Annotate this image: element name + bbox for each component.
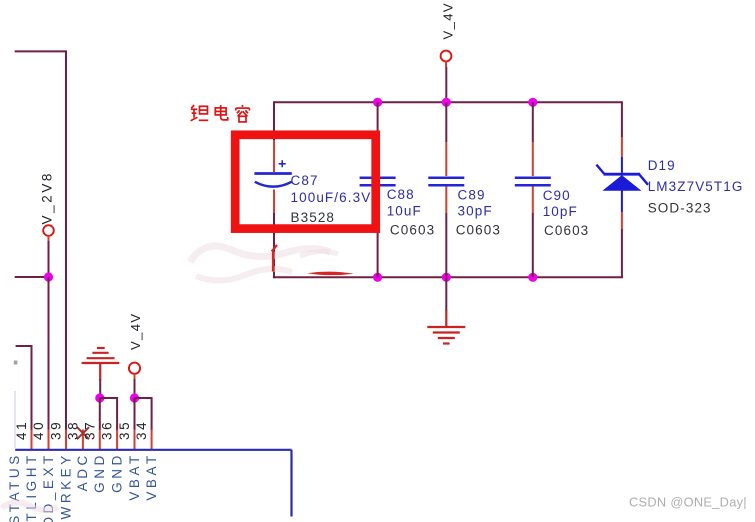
pin stub below V_4V top circle [445,61,447,67]
power port V_4V circle left [129,363,140,374]
wire junction jog to pin 36 [100,398,117,430]
wire junction to pin 35 [134,398,136,430]
junction top bus C88 [373,98,382,107]
svg-text:100uF/6.3V: 100uF/6.3V [291,190,372,205]
svg-text:V_2V8: V_2V8 [39,171,54,225]
容 [236,105,250,122]
pin 34 [151,430,153,450]
svg-text:CSDN @ONE_Day|: CSDN @ONE_Day| [629,495,747,510]
svg-text:C87: C87 [291,173,319,188]
svg-text:10uF: 10uF [387,203,422,218]
capacitor C88 plate 1 [360,176,396,179]
pin 35 [134,430,136,450]
wire junction jog to pin 34 [135,398,152,430]
junction top bus C90 [528,98,537,107]
pin stub below V_2V8 circle [48,236,50,242]
diode D19 branch wire top [621,101,623,137]
svg-text:V_4V: V_4V [128,313,143,350]
svg-text:GND: GND [109,452,124,493]
svg-text:C0603: C0603 [544,223,589,238]
svg-text:37: 37 [82,420,97,440]
svg-text:B3528: B3528 [291,210,336,225]
diode D19 zener bar [604,173,641,176]
diode D19 zener right tail [640,175,648,185]
junction bottom bus C88 [373,273,382,282]
钽 [191,105,209,121]
capacitor C90 branch wire top [532,102,534,142]
red annotation rectangle around C87 [235,135,376,229]
svg-text:41: 41 [14,420,29,440]
wire junction to pin 37 [99,398,101,430]
diode D19 cathode lead [621,157,623,173]
svg-text:40: 40 [31,420,46,440]
svg-text:C89: C89 [458,187,486,202]
capacitor C89 plate 1 [428,176,464,179]
capacitor C90 pin 1 [532,142,534,176]
diode D19 branch wire bottom [621,229,623,278]
IC U? body edge top [15,449,291,451]
wire top-left horizontal to VDD_EXT net [15,50,66,52]
diode D19 anode triangle [604,176,640,191]
capacitor C90 branch wire bottom [532,213,534,277]
capacitor C87 plus sign [279,160,286,167]
red marker tick near C87 wire [272,245,277,272]
ground symbol left (rotated) [82,348,120,380]
wire V_4V circle to junction [134,379,136,398]
svg-text:LM3Z7V5T1G: LM3Z7V5T1G [648,179,744,194]
power port V_2V8 circle [43,225,54,236]
junction V_2V8 node [44,272,53,281]
svg-text:34: 34 [134,420,149,440]
pin 40 [48,430,50,450]
电 [215,105,227,120]
svg-text:D19: D19 [648,158,676,173]
wire junction down to pin 40 [48,277,50,430]
capacitor C90 plate 2 [515,184,551,187]
capacitor C87 pin 1 [273,140,275,172]
svg-text:38: 38 [65,420,80,440]
capacitor C88 branch wire bottom [377,213,379,277]
capacitor C88 pin 1 [377,142,379,176]
svg-text:10pF: 10pF [543,204,578,219]
diode D19 anode lead [621,190,623,212]
faint watermark wisp bottom-left [2,502,58,509]
capacitor C87 curved plate [255,182,292,187]
pin 39 [65,430,67,450]
junction bottom bus ground [442,273,451,282]
pin stub below V_4V circle left [134,373,136,379]
wire top bus [274,101,622,103]
wire pin 41 vertical [31,345,33,430]
svg-text:V_4V: V_4V [440,2,455,39]
stray mark left end [14,361,18,365]
svg-text:STATUS: STATUS [7,452,22,522]
pin 36 [116,430,118,450]
junction bottom bus C90 [528,273,537,282]
pin 41 [31,430,33,450]
capacitor C87 branch wire top [273,101,275,140]
pin 38 [82,430,84,450]
wire bottom bus [274,276,622,278]
ground symbol bottom (red) [427,310,465,344]
faint watermark wisp middle [190,246,338,281]
wire pin 41 horizontal stub [16,345,32,347]
faint IC left edge hint [14,391,16,448]
diode D19 zener left tail [596,165,604,174]
svg-text:C90: C90 [543,188,571,203]
power port V_4V circle top [441,51,452,62]
svg-text:SOD-323: SOD-323 [648,201,712,216]
capacitor C87 branch wire bottom [273,213,275,278]
capacitor C89 pin 2 [445,187,447,214]
junction GND pins [95,393,104,402]
svg-text:39: 39 [49,420,64,440]
capacitor C89 pin 1 [445,142,447,176]
capacitor C90 plate 1 [515,176,551,179]
junction top bus C89 [442,98,451,107]
svg-text:30pF: 30pF [458,203,493,218]
capacitor C89 branch wire top [445,102,447,142]
svg-text:C0603: C0603 [456,222,501,237]
wire V_2V8 horizontal stub left [15,276,49,278]
svg-text:PWRKEY: PWRKEY [58,452,73,522]
junction VBAT pins [130,393,139,402]
svg-text:ADC: ADC [75,452,90,491]
no-connect X on pin 38 (ADC) [77,427,89,439]
capacitor C87 pin 2 [273,190,275,214]
diode D19 pin 1 (cathode) [621,137,623,157]
capacitor C88 pin 2 [377,187,379,214]
capacitor C87 flat plate [254,172,291,175]
wire V_2V8 circle down to junction [48,241,50,277]
svg-text:VBAT: VBAT [144,452,159,500]
svg-text:36: 36 [100,420,115,440]
capacitor C88 branch wire top [377,102,379,142]
IC body edge right [290,450,292,517]
svg-text:35: 35 [117,420,132,440]
capacitor C90 pin 2 [532,187,534,214]
capacitor C89 branch wire bottom [445,213,447,277]
wire V_4V down to top bus [445,67,447,102]
svg-text:C88: C88 [387,187,415,202]
wire ground stem from bottom bus [445,277,447,311]
svg-text:C0603: C0603 [390,222,435,237]
pin 37 [99,430,101,450]
svg-text:VBAT: VBAT [127,452,142,500]
svg-text:GND: GND [92,452,107,493]
capacitor C88 plate 2 [360,184,396,187]
red marker streak on bottom bus [307,272,354,276]
capacitor C89 plate 2 [428,184,464,187]
wire ground stem to junction [99,379,101,398]
annotation text 钽电容 (drawn strokes) [191,105,250,122]
diode D19 pin 2 [621,212,623,229]
wire long vertical to pin 39 [65,50,67,430]
